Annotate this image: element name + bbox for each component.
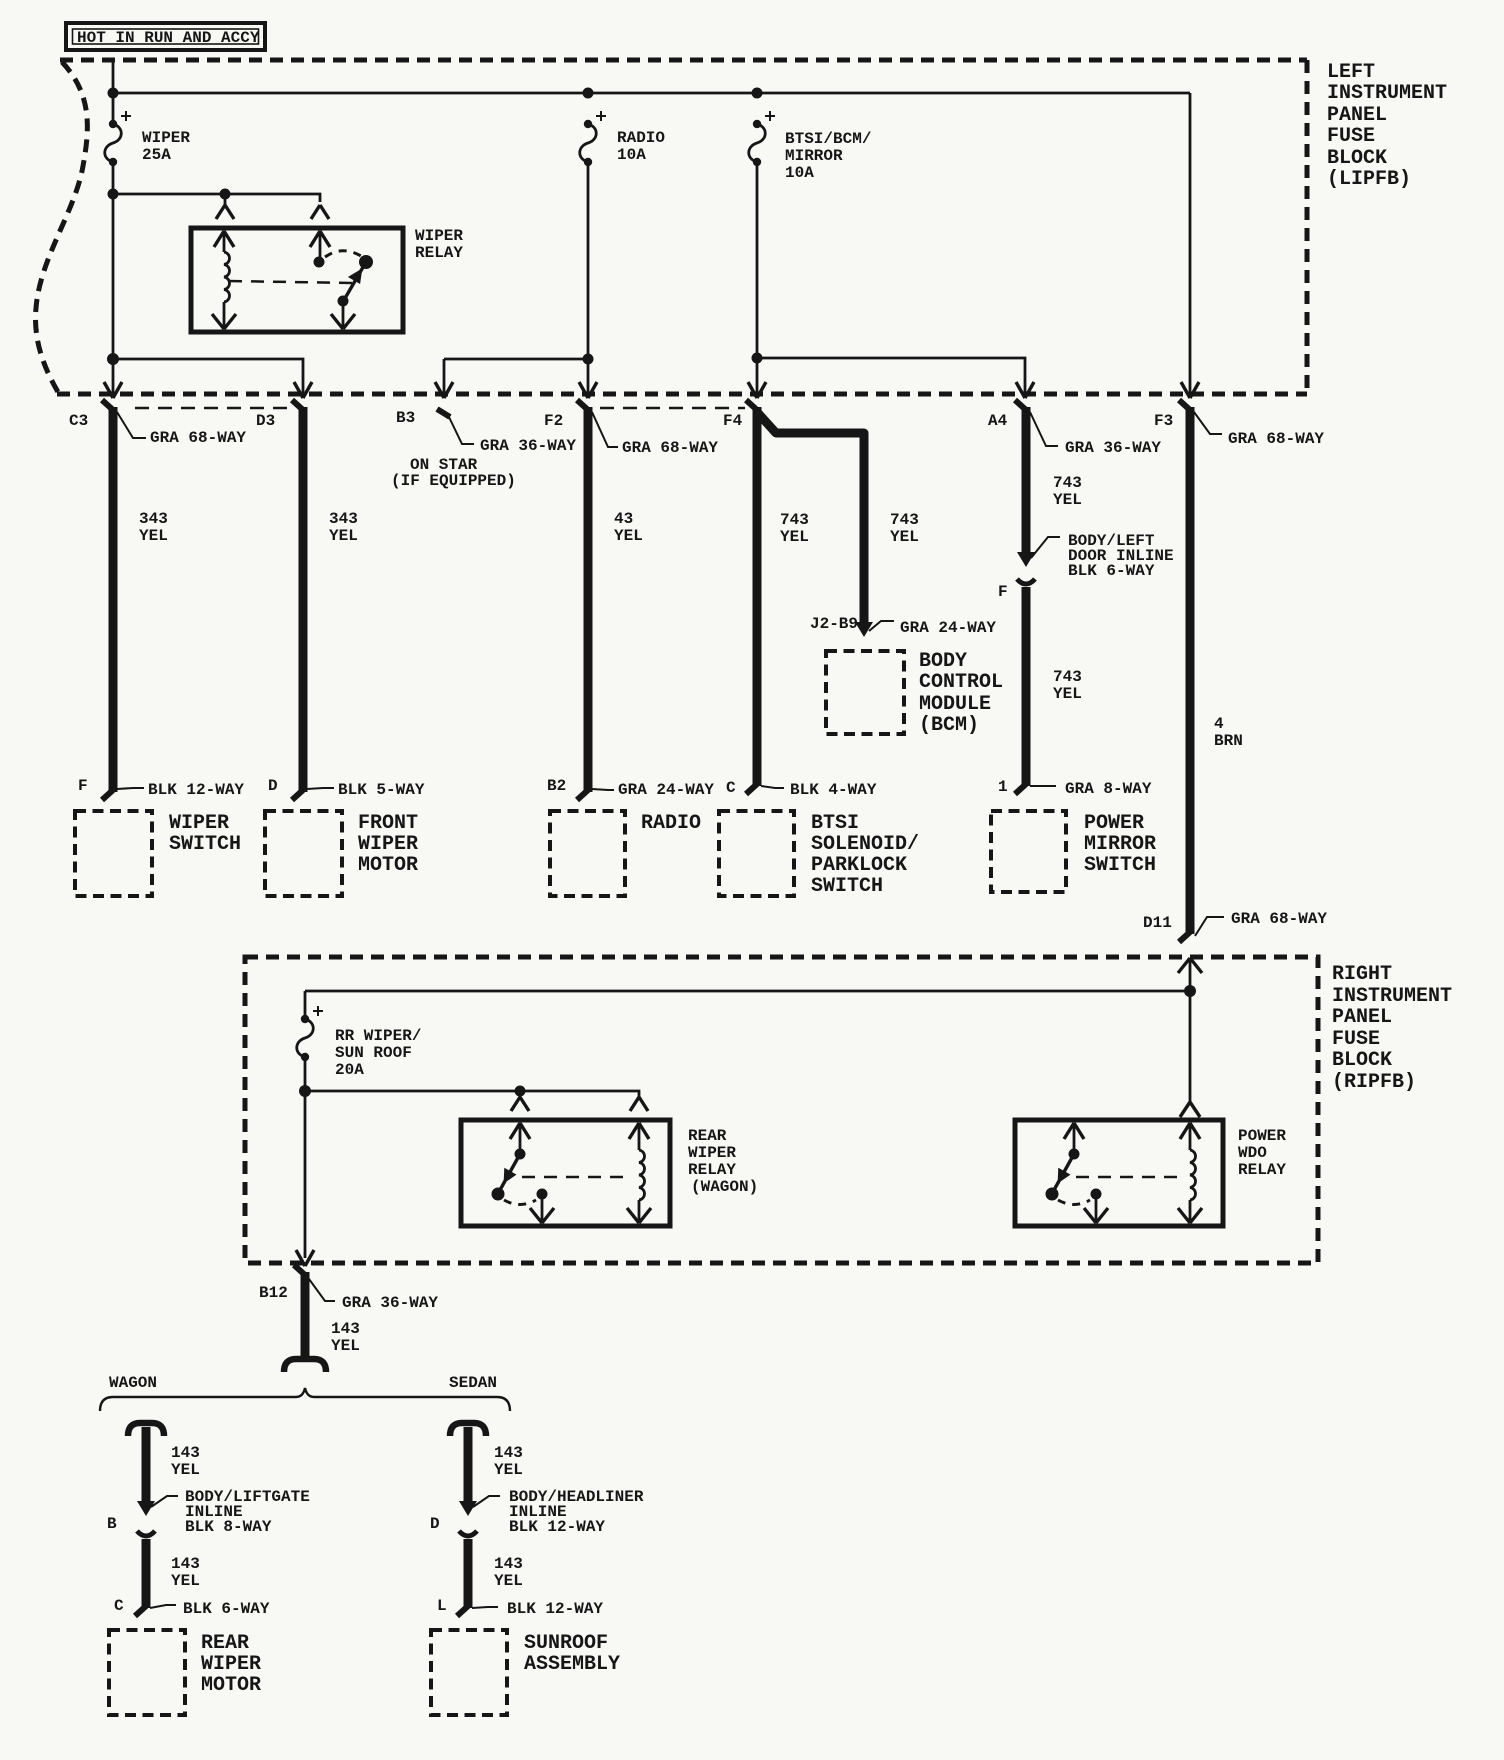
rear relay switch arrow up [510,1123,530,1139]
svg-text:A4: A4 [988,412,1008,430]
wire rear relay switch output stem [541,1194,544,1223]
connector fork relay pin 86 [216,205,234,219]
svg-text:D: D [430,1515,440,1533]
connector arrow A4 exit [1016,382,1034,398]
svg-text:RIGHT: RIGHT [1332,963,1392,986]
fuse WIPER 25A [105,111,191,166]
svg-text:RADIO: RADIO [641,812,701,835]
svg-text:743: 743 [890,511,919,529]
wire power relay switch output stem [1095,1194,1098,1223]
wire ripfb bus [305,990,1190,993]
wire rear relay switch stub [519,1091,522,1097]
connector notch wagon lower top [137,1531,155,1536]
relay box POWER WDO RELAY [1015,1120,1223,1226]
wire ripfb fuse feed [304,991,307,1019]
connector arrow C3 exit [104,382,122,398]
connector stub B3 ON STAR [437,409,474,444]
wire D11 entry to ripfb bus [1189,958,1192,1102]
connector arrow F3 exit [1181,382,1199,398]
svg-text:RELAY: RELAY [415,244,463,262]
svg-text:RR WIPER/: RR WIPER/ [335,1027,421,1045]
relay box REAR WIPER RELAY (WAGON) [461,1120,670,1226]
svg-text:WAGON: WAGON [109,1374,157,1392]
power relay coil arrow down [1178,1208,1202,1223]
svg-text:C: C [114,1597,124,1615]
relay switch dashed arc [325,251,361,257]
wire relay output to D3 exit [113,359,303,396]
svg-text:PANEL: PANEL [1327,104,1387,127]
wire 743 YEL F to power mirror switch [1015,587,1056,794]
svg-text:BTSI/BCM/: BTSI/BCM/ [785,130,871,148]
svg-text:143: 143 [494,1444,523,1462]
svg-text:YEL: YEL [890,528,919,546]
node btsi wire junction [752,353,763,364]
svg-text:FUSE: FUSE [1332,1028,1380,1051]
svg-text:BLK 5-WAY: BLK 5-WAY [338,781,425,799]
splice brace wagon/sedan [100,1388,510,1411]
connector arrow D11 entry [1178,958,1202,973]
node relay switch NO contact [359,255,373,269]
svg-text:L: L [437,1597,447,1615]
svg-text:143: 143 [331,1320,360,1338]
svg-text:(LIPFB): (LIPFB) [1327,168,1411,191]
connector curl sedan branch top [450,1423,486,1436]
relay switch arrow down [331,314,355,329]
rear relay coil [638,1123,641,1223]
svg-text:43: 43 [614,510,633,528]
power relay switch arrow down [1084,1208,1108,1223]
wire btsi fuse output [756,162,759,396]
svg-text:YEL: YEL [494,1572,523,1590]
label LEFT INSTRUMENT PANEL FUSE BLOCK (LIPFB) [1327,61,1447,191]
svg-text:F3: F3 [1154,412,1173,430]
svg-text:10A: 10A [785,164,814,182]
component RADIO [550,811,625,896]
wire F3 feed from bus [1189,93,1192,396]
wire 4 BRN F3 to D11 [1179,400,1224,942]
svg-text:REAR: REAR [688,1127,727,1145]
wire rear relay switch stem [519,1123,522,1150]
svg-text:BLOCK: BLOCK [1332,1049,1392,1072]
svg-text:10A: 10A [617,146,646,164]
wire 43 YEL F2 to radio [577,400,618,800]
wire btsi tap to A4 exit [757,358,1025,396]
connector arrow B12 exit [296,1250,314,1266]
wire 143 YEL sedan upper [464,1427,473,1502]
svg-text:BRN: BRN [1214,732,1243,750]
leader GRA 24-WAY BCM [869,621,894,631]
svg-text:INSTRUMENT: INSTRUMENT [1332,985,1452,1008]
relay switch arrow up [310,231,330,247]
wire relay switch stem [319,231,322,257]
wire bus [113,92,1190,95]
connector arrow body/left door inline [1017,552,1035,567]
node wiper relay feed junction [108,189,119,200]
svg-text:143: 143 [171,1444,200,1462]
relay coil [223,231,226,329]
svg-text:GRA 36-WAY: GRA 36-WAY [342,1294,438,1312]
node relay switch output [338,296,349,307]
svg-text:WIPER: WIPER [688,1144,736,1162]
svg-text:YEL: YEL [329,527,358,545]
svg-text:POWER: POWER [1238,1127,1286,1145]
dashed tie C3-D3 [135,407,291,409]
svg-text:B: B [107,1515,117,1533]
svg-text:(WAGON): (WAGON) [691,1178,758,1196]
svg-text:GRA 68-WAY: GRA 68-WAY [150,429,246,447]
rear relay switch blade [500,1154,520,1190]
node bus junction at radio fuse [583,88,594,99]
svg-text:CONTROL: CONTROL [919,671,1003,694]
component BODY CONTROL MODULE (BCM) [826,651,904,734]
svg-text:YEL: YEL [171,1572,200,1590]
wire ripfb fuse output [304,1057,307,1258]
connector notch F segment top [1017,579,1035,584]
svg-text:GRA 36-WAY: GRA 36-WAY [480,437,576,455]
svg-text:J2-B9: J2-B9 [810,615,858,633]
svg-text:WIPER: WIPER [142,129,190,147]
connector arrow F2 exit [579,382,597,398]
node power relay switch output [1091,1189,1102,1200]
svg-text:B12: B12 [259,1284,288,1302]
svg-text:SWITCH: SWITCH [811,875,883,898]
power relay switch blade [1054,1154,1074,1190]
svg-text:PANEL: PANEL [1332,1006,1392,1029]
svg-text:MOTOR: MOTOR [201,1674,261,1697]
power relay switch arrow up [1064,1123,1084,1139]
connector arrow body/headliner inline [459,1501,477,1516]
svg-text:WIPER: WIPER [415,227,463,245]
svg-text:GRA 68-WAY: GRA 68-WAY [622,439,718,457]
component SUNROOF ASSEMBLY [431,1630,507,1715]
connector curl B12 bottom inline [284,1359,326,1372]
relay coil arrow up [214,231,234,247]
connector curl wagon branch top [128,1423,164,1436]
svg-text:25A: 25A [142,146,171,164]
node relay output junction left wire [107,353,119,365]
svg-text:YEL: YEL [1053,491,1082,509]
wire power relay switch stem [1073,1123,1076,1150]
svg-text:INSTRUMENT: INSTRUMENT [1327,82,1447,105]
svg-text:C: C [726,779,736,797]
svg-text:343: 343 [139,510,168,528]
connector fork rear relay coil pin [630,1097,648,1111]
connector arrow D3 exit [294,382,312,398]
svg-text:MOTOR: MOTOR [358,854,418,877]
power relay switch blade arrowhead [1058,1168,1071,1184]
svg-text:YEL: YEL [614,527,643,545]
relay switch blade arrowhead [348,268,362,284]
svg-text:YEL: YEL [139,527,168,545]
svg-text:SUN ROOF: SUN ROOF [335,1044,412,1062]
svg-text:YEL: YEL [780,528,809,546]
fuse RADIO 10A [580,111,666,166]
wire 143 YEL wagon upper [142,1427,151,1502]
svg-text:BLK 8-WAY: BLK 8-WAY [185,1518,272,1536]
svg-text:GRA 36-WAY: GRA 36-WAY [1065,439,1161,457]
svg-text:ASSEMBLY: ASSEMBLY [524,1653,620,1676]
svg-text:GRA 68-WAY: GRA 68-WAY [1228,430,1324,448]
svg-text:C3: C3 [69,412,88,430]
svg-text:F4: F4 [723,412,743,430]
fuse block LIPFB dashed border [36,60,1307,394]
svg-text:BODY: BODY [919,650,967,673]
connector arrow body/liftgate inline [137,1501,155,1516]
node relay feed tap [220,189,231,200]
wire 143 YEL wagon lower [135,1539,176,1616]
rear relay coil arrow up [629,1123,649,1139]
relay box WIPER RELAY [191,228,403,332]
rear relay actuation dashed link [522,1176,632,1179]
wire 343 YEL C3 to wiper switch [102,400,146,800]
svg-text:HOT IN RUN AND ACCY: HOT IN RUN AND ACCY [77,29,260,47]
power relay switch dashed arc [1058,1200,1090,1205]
svg-text:MODULE: MODULE [919,693,991,716]
node rear relay switch output [537,1189,548,1200]
svg-text:YEL: YEL [171,1461,200,1479]
wire radio tap to B3 exit [444,359,588,396]
component FRONT WIPER MOTOR [265,811,342,896]
svg-text:SEDAN: SEDAN [449,1374,497,1392]
power relay coil [1189,1123,1192,1223]
svg-text:BLK 4-WAY: BLK 4-WAY [790,781,877,799]
svg-text:343: 343 [329,510,358,528]
component REAR WIPER MOTOR [109,1630,185,1715]
svg-text:SOLENOID/: SOLENOID/ [811,833,919,856]
fuse BTSI/BCM/MIRROR 10A [749,111,872,182]
svg-text:GRA 24-WAY: GRA 24-WAY [618,781,714,799]
svg-text:(RIPFB): (RIPFB) [1332,1071,1416,1094]
svg-text:YEL: YEL [1053,685,1082,703]
svg-text:D11: D11 [1143,914,1172,932]
svg-text:BLOCK: BLOCK [1327,147,1387,170]
svg-text:B2: B2 [547,777,566,795]
leader body/liftgate [151,1496,178,1507]
wire radio fuse output [587,162,590,396]
svg-text:WDO: WDO [1238,1144,1267,1162]
svg-text:GRA 8-WAY: GRA 8-WAY [1065,780,1152,798]
svg-text:BLK 6-WAY: BLK 6-WAY [183,1600,270,1618]
leader body/headliner [473,1496,500,1507]
wire feed stub top [112,60,115,124]
node rear relay switch common [515,1149,526,1160]
svg-text:WIPER: WIPER [358,833,418,856]
connector arrow F4 exit [748,382,766,398]
connector notch sedan lower top [459,1531,477,1536]
wire 343 YEL D3 to front wiper motor [292,400,334,800]
svg-text:D: D [268,777,278,795]
node rear relay switch tap [515,1086,526,1097]
relay actuation dashed link [229,281,352,283]
svg-text:GRA 24-WAY: GRA 24-WAY [900,619,996,637]
svg-text:D3: D3 [256,412,275,430]
svg-text:BLK 12-WAY: BLK 12-WAY [148,781,244,799]
svg-text:RELAY: RELAY [1238,1161,1286,1179]
svg-text:BLK 12-WAY: BLK 12-WAY [509,1518,605,1536]
wire relay pin stub left [224,194,227,205]
node power relay switch NC contact [1046,1188,1059,1201]
relay coil arrow down [212,314,236,329]
svg-text:GRA 68-WAY: GRA 68-WAY [1231,910,1327,928]
svg-text:POWER: POWER [1084,812,1144,835]
dashed tie F2-F4 [600,407,745,409]
svg-text:143: 143 [494,1555,523,1573]
svg-text:(IF EQUIPPED): (IF EQUIPPED) [391,472,516,490]
node relay switch common [314,257,325,268]
power relay coil arrow up [1180,1123,1200,1139]
connector arrow B3 exit [435,382,453,398]
node ripfb relay feed junction [299,1085,311,1097]
svg-text:YEL: YEL [494,1461,523,1479]
svg-text:743: 743 [1053,474,1082,492]
svg-text:REAR: REAR [201,1632,249,1655]
svg-text:WIPER: WIPER [169,812,229,835]
svg-text:(BCM): (BCM) [919,714,979,737]
svg-text:F: F [998,583,1008,601]
svg-text:FUSE: FUSE [1327,125,1375,148]
component WIPER SWITCH [75,811,152,896]
node bus junction at btsi fuse [752,88,763,99]
svg-text:743: 743 [780,511,809,529]
svg-text:SUNROOF: SUNROOF [524,1632,608,1655]
svg-text:SWITCH: SWITCH [1084,854,1156,877]
connector fork relay pin 30 [311,205,329,219]
svg-text:BTSI: BTSI [811,812,859,835]
wire 743 YEL F4 to btsi [746,400,784,794]
svg-text:B3: B3 [396,409,415,427]
rear relay switch blade arrowhead [504,1168,517,1184]
svg-text:RELAY: RELAY [688,1161,736,1179]
svg-text:RADIO: RADIO [617,129,665,147]
relay switch blade [344,262,366,300]
wire 143 YEL sedan lower [457,1539,498,1616]
svg-text:MIRROR: MIRROR [785,147,843,165]
svg-text:SWITCH: SWITCH [169,833,241,856]
fuse block RIPFB dashed border [245,957,1318,1263]
connector arrow J2-B9 [855,622,873,637]
svg-text:743: 743 [1053,668,1082,686]
wire 143 YEL B12 [294,1265,335,1358]
svg-text:F2: F2 [544,412,563,430]
wire 743 YEL A4 upper segment [1015,400,1060,558]
wire relay switch output stem [342,301,345,329]
svg-text:143: 143 [171,1555,200,1573]
wire rear wiper relay feed [305,1091,639,1097]
wire relay feed horizontal [113,194,320,202]
node ripfb bus junction right [1184,985,1196,997]
svg-text:LEFT: LEFT [1327,61,1375,84]
svg-text:4: 4 [1214,715,1224,733]
wire 743 YEL branch to BCM [757,412,864,624]
svg-text:PARKLOCK: PARKLOCK [811,854,907,877]
label RIGHT INSTRUMENT PANEL FUSE BLOCK (RIPFB) [1332,963,1452,1094]
svg-text:F: F [78,777,88,795]
power source tag HOT IN RUN AND ACCY [66,23,265,50]
node rear relay switch NC contact [492,1188,505,1201]
rear relay switch arrow down [530,1208,554,1223]
power relay actuation dashed link [1076,1176,1183,1179]
svg-text:BLK 12-WAY: BLK 12-WAY [507,1600,603,1618]
node power relay switch common [1069,1149,1080,1160]
svg-text:WIPER: WIPER [201,1653,261,1676]
rear relay coil arrow down [627,1208,651,1223]
connector fork rear relay switch pin [511,1097,529,1111]
fuse RR WIPER/SUN ROOF 20A [297,1006,422,1079]
component BTSI SOLENOID/PARKLOCK SWITCH [719,811,794,896]
svg-text:1: 1 [998,778,1008,796]
svg-text:YEL: YEL [331,1337,360,1355]
node bus junction at wiper fuse [108,88,119,99]
svg-text:BLK 6-WAY: BLK 6-WAY [1068,562,1155,580]
component POWER MIRROR SWITCH [991,811,1066,892]
svg-text:FRONT: FRONT [358,812,418,835]
svg-text:20A: 20A [335,1061,364,1079]
wire wiper fuse output [112,162,115,396]
node radio wire junction [583,354,594,365]
svg-text:MIRROR: MIRROR [1084,833,1156,856]
rear relay switch dashed arc [504,1200,536,1205]
connector fork power wdo relay coil pin [1180,1102,1200,1117]
